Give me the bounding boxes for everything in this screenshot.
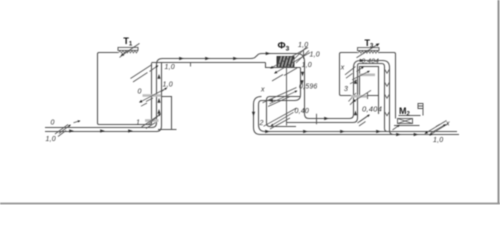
svg-text:1,0: 1,0: [433, 137, 443, 144]
section 0 direction arrow: [59, 125, 71, 134]
duct V1 flow arrow up 3: [157, 109, 160, 114]
filter flow arrow 2 through F3: [275, 53, 311, 74]
bottom duct flow arrow 3: [340, 130, 345, 133]
section x'' small arrow: [357, 67, 364, 72]
section 1' slashes at V1 top: [131, 65, 153, 83]
inner box beside duct V1: [162, 97, 172, 130]
section 1 gray band at V1 bottom: [145, 119, 159, 122]
heater T1 flow arrow: [121, 43, 140, 55]
svg-text:1,0: 1,0: [165, 64, 175, 71]
branch 0,40 upper line: [309, 61, 394, 135]
section 0' parallel slashes: [141, 98, 153, 106]
section x outlet: slashes: [436, 124, 440, 126]
bottom duct flow arrow 5: [396, 133, 401, 136]
svg-text:2: 2: [259, 120, 264, 127]
branch 0,40 lower line: [287, 64, 388, 132]
fan M2 box: [398, 119, 413, 124]
bottom duct flow arrow 2: [303, 130, 308, 133]
room B outline right: [379, 53, 396, 119]
section 2 slashes: [264, 108, 297, 129]
branch 0,40 tick: [316, 114, 318, 125]
V2 top section slashes: [294, 47, 310, 63]
section 1 slashes: [142, 116, 159, 129]
svg-text:x: x: [340, 64, 345, 71]
heater T1 hatch strip: [118, 51, 137, 53]
intake flow arrow 2: [100, 129, 105, 132]
section at riser bottom: slashes: [358, 115, 370, 126]
section x outlet: arrow down-left 2: [430, 123, 449, 135]
bottom duct flow arrow 4: [376, 130, 381, 133]
return loop outer line: [254, 97, 460, 135]
section 0' arrow into room: [140, 90, 165, 103]
filter F3 hatch: [279, 57, 294, 67]
section 3 tick: [367, 93, 369, 99]
downcomer chevron arrow 2: [385, 83, 390, 87]
svg-text:x: x: [445, 121, 450, 128]
intake duct top line: [45, 127, 152, 129]
svg-text:Ф3: Ф3: [278, 41, 290, 53]
section 1 direction arrow: [148, 114, 161, 125]
duct V1 left line: [152, 59, 163, 128]
svg-text:x: x: [260, 86, 265, 93]
branch flow arrow left: [268, 99, 273, 102]
svg-text:3: 3: [344, 86, 348, 93]
svg-text:0,404: 0,404: [362, 105, 382, 114]
fan M2 base slash arrow: [393, 125, 400, 130]
frame right edge: [498, 0, 500, 204]
svg-text:0,404: 0,404: [362, 58, 380, 65]
section x slashes (middle): [263, 88, 297, 107]
filter lower slash pair: [272, 68, 297, 81]
section at riser bottom: arrow: [360, 115, 370, 122]
section x outlet: arrow up-right: [431, 125, 446, 133]
section arrow on inner box: [352, 71, 370, 80]
section x outlet: arrow down-left 1: [425, 121, 447, 134]
room B bottom edge right of riser: [358, 95, 379, 97]
section 3 arrow: [353, 90, 371, 102]
svg-text:1,0: 1,0: [302, 62, 312, 69]
downcomer chevron arrow 3: [385, 95, 390, 99]
parallel slash below: [350, 80, 358, 84]
section 3 slashes: [349, 93, 357, 105]
branch 0,40 flow arrow: [324, 117, 329, 120]
svg-text:T1: T1: [123, 36, 132, 48]
svg-text:0,40: 0,40: [295, 108, 309, 115]
room A outline: [98, 53, 152, 125]
duct V2 left line: [262, 68, 301, 101]
fan M2 platform line: [399, 115, 421, 117]
section 0' gray band through room A wall: [143, 94, 162, 97]
V2 flow arrow down 1: [301, 72, 304, 77]
section 2 arrow: [271, 112, 294, 126]
duct V1 flow arrow up 2: [157, 98, 160, 103]
wire: duct H1 bottom line: [152, 62, 266, 64]
duct V1 right line: [157, 63, 162, 132]
flag symbol next to M2: [418, 104, 423, 116]
svg-text:M2: M2: [399, 106, 411, 118]
section x'' slashes on riser: [345, 67, 356, 79]
downcomer chevron arrow 4: [385, 112, 390, 116]
fan M2 base line: [394, 125, 420, 127]
fan M2 bowtie blades: [398, 119, 413, 124]
section 3 gray band: [351, 95, 367, 98]
intake flow arrow 1: [69, 129, 74, 132]
heater T3 box: [358, 48, 380, 51]
H1 flow arrow 3: [233, 57, 238, 60]
heater T1 box: [118, 47, 138, 50]
heater T3 hatch strip: [358, 51, 379, 53]
riser flow arrow up 1: [354, 79, 357, 84]
section x arrow: [270, 91, 298, 104]
filter chamber floor: [266, 63, 301, 68]
drain line under filter: [286, 68, 288, 126]
small arrow under V1 label: [161, 88, 167, 92]
bottom duct flow arrow 1: [265, 130, 270, 133]
V2 flow arrow down 2: [300, 80, 303, 85]
svg-text:1,0: 1,0: [46, 136, 56, 143]
duct H1 top line with S-bend up: [163, 54, 310, 119]
section 0 slash marks: [55, 125, 68, 137]
V2 top section tick: [303, 50, 305, 58]
filter flow arrow 1 through F3: [271, 48, 309, 69]
duct V1 flow arrow up 1: [157, 74, 160, 79]
H1 flow arrow 2: [205, 57, 210, 60]
svg-text:1: 1: [136, 119, 140, 126]
svg-text:1,0: 1,0: [298, 42, 308, 49]
H1 flow arrow 1: [179, 57, 184, 60]
intake duct bottom line: [45, 131, 157, 133]
inner box base line: [158, 129, 177, 131]
filter F3 body: [277, 57, 294, 67]
loop flow arrow down: [252, 112, 255, 117]
frame bottom edge: [0, 203, 500, 205]
heater T3 flow arrow: [357, 44, 380, 58]
svg-text:0: 0: [138, 89, 142, 96]
intake flow arrow 3: [128, 129, 133, 132]
svg-text:1,0: 1,0: [163, 82, 173, 89]
duct H1 tick mark: [190, 62, 192, 67]
section 1' small arrow: [150, 66, 159, 72]
branch duct to left: upper line: [267, 97, 301, 127]
room B outline left: [340, 53, 358, 96]
svg-text:T3: T3: [365, 38, 375, 50]
downcomer chevron arrow 1: [385, 70, 390, 74]
section 0 view arrow: [74, 121, 81, 123]
svg-text:0,596: 0,596: [299, 83, 318, 90]
inner box room B: [360, 67, 379, 115]
riser flow arrow up 2: [354, 111, 357, 116]
return loop inner line: [259, 101, 458, 132]
svg-text:0: 0: [51, 119, 55, 126]
bottom duct flow arrow 6: [414, 133, 419, 136]
H1 flow arrow 4 on raised line: [266, 52, 271, 55]
top duct flow arrow right: [360, 59, 365, 62]
svg-text:1,0: 1,0: [310, 52, 320, 59]
section band on inner box: [359, 74, 376, 77]
